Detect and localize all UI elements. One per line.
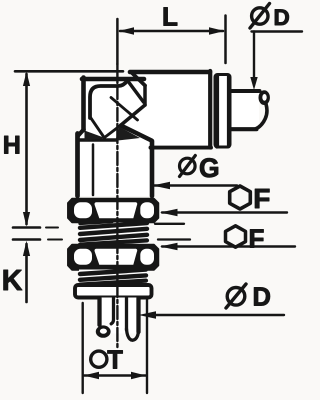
elbow top edge (82, 77, 144, 82)
thread 2 coil strokes (80, 270, 146, 274)
washer (75, 285, 152, 298)
nut F1 left facet (74, 202, 92, 218)
F1 arrowhead (160, 209, 178, 216)
svg-text:F: F (249, 224, 265, 254)
diameter G: circle (180, 158, 196, 174)
K tick line lower (13, 238, 40, 241)
K dimension line (25, 244, 28, 302)
L left arrowhead (119, 27, 135, 34)
K tick line upper (13, 226, 40, 229)
H bottom arrowhead (23, 212, 30, 227)
thread section 2 (79, 270, 148, 285)
T left arrowhead (84, 372, 99, 379)
fitting body silhouette (white fill) (78, 72, 211, 196)
body inner vertical line (92, 145, 95, 196)
sleeve right edge curve (255, 104, 267, 129)
diameter D bottom: circle (227, 288, 245, 306)
L right extension line (224, 16, 227, 64)
hexagon F2 (226, 226, 246, 247)
sleeve top edge (230, 89, 260, 93)
D bottom leader line (153, 314, 284, 316)
diameter G: slash (180, 156, 196, 177)
F2 leader line (162, 245, 295, 247)
L right arrowhead (209, 27, 225, 34)
panel dash left upper (46, 227, 58, 229)
label O of OT (91, 351, 107, 367)
D top leader drop (253, 32, 255, 80)
svg-text:F: F (253, 183, 270, 214)
centerline (116, 19, 119, 64)
T dimension line (84, 374, 146, 376)
body right edge (150, 141, 155, 196)
barrel top edge (130, 70, 210, 75)
nut F1 middle facet (95, 202, 138, 218)
stem end ellipse ring (96, 325, 111, 337)
nut F2 right facet (140, 249, 154, 265)
H dimension line (25, 74, 28, 224)
elbow facet vertical (143, 86, 147, 106)
nut F1 right facet (140, 202, 154, 218)
diameter D top: circle (252, 8, 268, 24)
T right arrowhead (131, 372, 146, 379)
elbow facet chamfer d1 (132, 73, 146, 86)
T right extension line (146, 300, 148, 393)
stem white fill (98, 298, 141, 334)
D bottom arrowhead (139, 311, 157, 318)
T left extension line (81, 303, 83, 393)
svg-text:T: T (107, 346, 123, 374)
svg-text:H: H (3, 132, 21, 160)
junction chamfer (121, 126, 152, 141)
collar (release-collar flange) white fill (214, 74, 231, 149)
hex nut F2 body (68, 245, 159, 271)
nut F2 middle facet (95, 249, 138, 265)
stem bore right line (125, 298, 128, 330)
F2 arrowhead (160, 243, 178, 250)
H top extension line (15, 70, 123, 73)
hex nut F1 body (68, 199, 159, 223)
elbow lower-left dark facet wedge (85, 131, 106, 141)
stem bore U bottom (127, 329, 139, 340)
svg-text:D: D (274, 5, 290, 30)
G leader line (154, 184, 237, 186)
G arrowhead (153, 182, 171, 189)
hexagon F1 (230, 186, 251, 209)
elbow lower facet b (105, 125, 122, 138)
release sleeve white fill (230, 91, 259, 130)
thread 1 coil strokes (80, 223, 147, 228)
L dimension line (120, 30, 223, 33)
K arrowhead (23, 241, 30, 256)
collar outline (215, 75, 230, 148)
elbow lower facet a (91, 118, 105, 139)
elbow facet diagonal d3 (121, 105, 145, 125)
svg-text:D: D (253, 284, 271, 312)
D top arrowhead (250, 77, 257, 90)
thread section 1 (79, 223, 148, 245)
svg-text:G: G (199, 153, 220, 183)
collar right edge (227, 76, 230, 147)
svg-text:K: K (2, 265, 23, 297)
D top underline leader (252, 30, 303, 32)
stem right edge (136, 298, 140, 332)
collar left edge thick (215, 76, 219, 147)
body left edge (75, 134, 80, 197)
svg-text:L: L (162, 2, 178, 32)
sleeve bottom edge (230, 127, 257, 131)
barrel right edge (208, 71, 212, 148)
H top arrowhead (23, 72, 30, 86)
panel line right upper (155, 223, 184, 225)
diameter D bottom: slash (226, 284, 246, 308)
stem bore left line (111, 298, 113, 324)
nut F2 left facet (74, 249, 92, 265)
elbow lower-right dark facet wedge (116, 127, 141, 141)
stem left edge (97, 298, 101, 325)
elbow left edge (81, 78, 86, 131)
panel dash left lower (48, 239, 62, 241)
diameter D top: slash (250, 4, 270, 29)
elbow skirt chamfer (78, 130, 84, 137)
body shoulder line (79, 138, 117, 141)
F1 leader line (162, 211, 287, 213)
elbow cheek facet (111, 98, 138, 121)
barrel bottom edge (151, 146, 212, 150)
sleeve curl ring (259, 90, 270, 105)
elbow inner contour (90, 81, 127, 118)
elbow facet diagonal d2 (128, 81, 144, 103)
panel line right lower (158, 238, 190, 240)
